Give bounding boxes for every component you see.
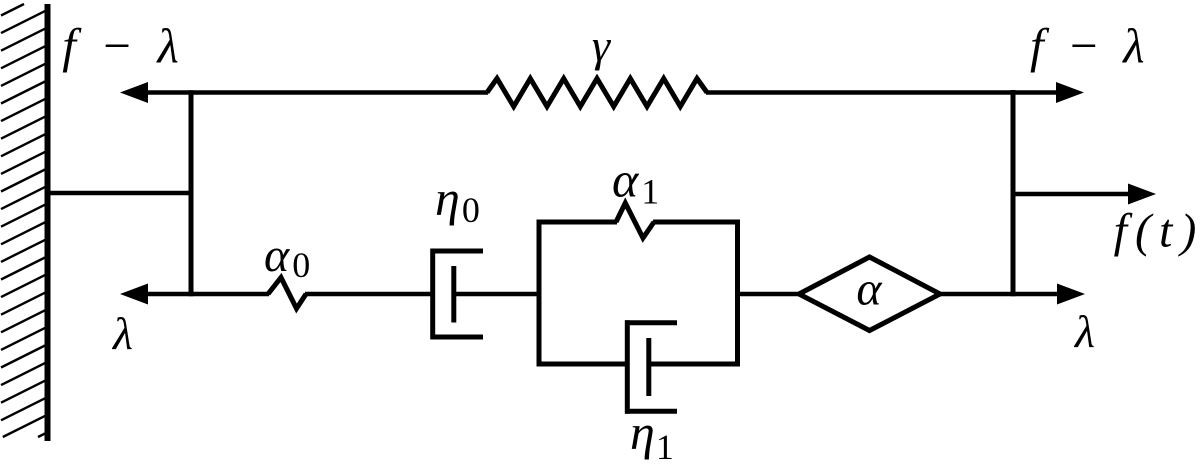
- wire: left junction bar: [189, 90, 194, 296]
- wire: top horizontal right segment: [706, 90, 1058, 95]
- diamond alpha element: [799, 257, 940, 331]
- svg-text:λ: λ: [111, 308, 133, 359]
- svg-text:f(t): f(t): [1114, 205, 1200, 258]
- dashpot eta1: piston plate: [646, 338, 651, 396]
- dashpot eta0: cup bottom arm: [431, 335, 484, 340]
- spring gamma: [487, 79, 707, 107]
- svg-text:α1: α1: [612, 152, 659, 212]
- dashpot eta1: cup wall: [625, 320, 630, 414]
- wire: top horizontal left segment: [145, 90, 488, 95]
- svg-text:f − λ: f − λ: [62, 18, 184, 73]
- parallel box: right wall: [735, 220, 740, 367]
- dashpot eta0: cup top arm: [431, 249, 484, 254]
- svg-text:λ: λ: [1073, 306, 1095, 357]
- wire: right junction bar: [1011, 90, 1016, 296]
- wire: middle right f(t) lead: [1013, 192, 1130, 197]
- wall hatching: [1, 4, 45, 437]
- wire: bottom left segment: [145, 292, 269, 297]
- svg-text:α: α: [856, 263, 882, 316]
- dashpot eta0: piston rod: [454, 292, 541, 297]
- wire: wall stub: [50, 191, 193, 196]
- svg-text:γ: γ: [592, 20, 612, 71]
- svg-text:η0: η0: [435, 170, 480, 230]
- svg-text:α0: α0: [264, 229, 310, 285]
- spring alpha0 (small): [268, 278, 306, 309]
- parallel box: top edge left part: [537, 220, 618, 225]
- arrow head bottom-left (lambda): [120, 284, 148, 305]
- arrow head top-left (f-lambda): [120, 82, 148, 103]
- dashpot eta0: cup wall: [430, 249, 435, 340]
- dashpot eta1: cup bottom arm: [625, 409, 677, 414]
- dashpot eta0: piston plate: [451, 266, 456, 323]
- wire: box right wall to diamond: [738, 292, 801, 297]
- svg-text:f − λ: f − λ: [1030, 18, 1150, 73]
- parallel box: top edge right part: [653, 220, 740, 225]
- spring alpha1 (small): [616, 203, 654, 238]
- wire: diamond to right bar: [939, 292, 1058, 297]
- arrow head middle-right f(t): [1128, 184, 1156, 205]
- wire: bottom segment to dashpot: [305, 292, 433, 297]
- arrow head bottom-right (lambda): [1057, 284, 1085, 305]
- arrow head top-right (f-lambda): [1056, 82, 1084, 103]
- wall face line: [45, 4, 51, 441]
- parallel box: left wall: [537, 220, 542, 367]
- dashpot eta1: piston rod (bottom edge right part): [649, 362, 740, 367]
- parallel box: bottom edge left part: [537, 362, 629, 367]
- dashpot eta1: cup top arm: [625, 320, 677, 325]
